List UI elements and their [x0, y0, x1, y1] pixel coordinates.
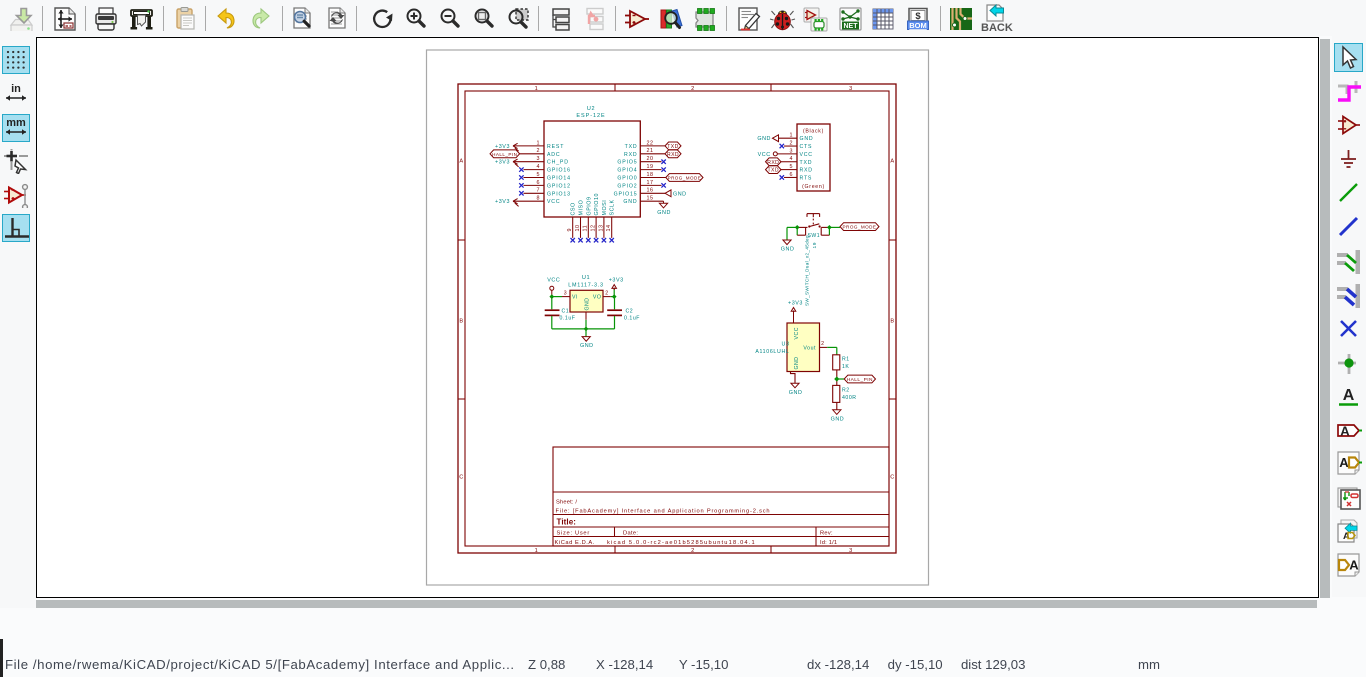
svg-text:GND: GND: [789, 390, 803, 396]
svg-text:R1: R1: [842, 357, 850, 363]
svg-text:CH_PD: CH_PD: [547, 160, 569, 166]
svg-text:Sheet: /: Sheet: /: [556, 500, 577, 506]
svg-text:1K: 1K: [842, 364, 849, 370]
svg-text:A: A: [1340, 423, 1350, 438]
svg-text:kicad 5.0.0-rc2-ae01b5285ubunt: kicad 5.0.0-rc2-ae01b5285ubuntu18.04.1: [607, 540, 756, 546]
svg-text:+3V3: +3V3: [609, 278, 624, 284]
svg-text:0.1uF: 0.1uF: [560, 316, 576, 322]
svg-text:A: A: [1349, 558, 1359, 573]
svg-text:Title:: Title:: [557, 518, 577, 527]
svg-text:SW_SWITCH_Dual_x2_45deg: SW_SWITCH_Dual_x2_45deg: [805, 235, 810, 306]
svg-text:SCLK: SCLK: [610, 199, 616, 215]
svg-text:RXD: RXD: [800, 168, 813, 174]
svg-text:GND: GND: [657, 210, 671, 216]
svg-text:+3V3: +3V3: [788, 301, 803, 307]
svg-text:GPIO10: GPIO10: [594, 193, 600, 215]
svg-text:C1: C1: [562, 309, 570, 315]
svg-text:PROG_MODE: PROG_MODE: [668, 176, 702, 181]
svg-text:in: in: [11, 83, 21, 95]
svg-text:A: A: [890, 159, 894, 165]
svg-text:GND: GND: [623, 199, 637, 205]
svg-text:Date:: Date:: [623, 531, 638, 537]
svg-text:14: 14: [606, 225, 612, 232]
svg-text:GND: GND: [781, 247, 795, 253]
svg-text:RXD: RXD: [667, 152, 679, 158]
svg-text:ESP-12E: ESP-12E: [576, 113, 605, 119]
svg-text:GPIO15: GPIO15: [614, 191, 638, 197]
svg-text:GPIO16: GPIO16: [547, 168, 571, 174]
svg-text:GPIO4: GPIO4: [617, 168, 637, 174]
svg-text:CSO: CSO: [571, 202, 577, 215]
svg-text:Size: User: Size: User: [557, 531, 590, 537]
svg-text:GPIO13: GPIO13: [547, 191, 571, 197]
svg-text:TXD: TXD: [767, 168, 779, 174]
svg-text:+3V3: +3V3: [495, 160, 510, 166]
svg-text:VCC: VCC: [800, 152, 813, 158]
svg-text:A1106LUHL: A1106LUHL: [755, 349, 789, 355]
svg-text:GND: GND: [794, 356, 800, 369]
svg-text:12: 12: [591, 225, 597, 232]
svg-text:VI: VI: [572, 295, 578, 301]
svg-text:B: B: [890, 319, 894, 325]
svg-text:GPIO0: GPIO0: [617, 176, 637, 182]
svg-text:GPIO9: GPIO9: [586, 197, 592, 216]
svg-text:GPIO2: GPIO2: [617, 183, 637, 189]
svg-text:HALL_PIN: HALL_PIN: [492, 152, 517, 157]
svg-text:B: B: [459, 319, 463, 325]
svg-text:GND: GND: [800, 136, 814, 142]
svg-text:RXD: RXD: [767, 160, 779, 166]
svg-text:mm: mm: [6, 117, 26, 129]
svg-text:Id: 1/1: Id: 1/1: [820, 540, 837, 546]
svg-text:MOSI: MOSI: [602, 200, 608, 216]
svg-text:VCC: VCC: [758, 152, 771, 158]
svg-text:KiCad E.D.A.: KiCad E.D.A.: [555, 540, 595, 546]
svg-text:13: 13: [598, 225, 604, 232]
svg-text:BOM: BOM: [909, 21, 927, 30]
svg-text:1: 1: [535, 86, 539, 92]
svg-text:Rev:: Rev:: [820, 531, 833, 537]
svg-text:+3V3: +3V3: [495, 144, 510, 150]
svg-text:GND: GND: [580, 343, 594, 349]
svg-text:C: C: [459, 475, 464, 481]
svg-text:3: 3: [564, 291, 567, 297]
svg-text:VCC: VCC: [547, 199, 561, 205]
svg-text:GND: GND: [585, 297, 591, 310]
svg-text:RTS: RTS: [800, 175, 813, 181]
svg-text:Vout: Vout: [803, 345, 816, 351]
svg-text:VCC: VCC: [547, 278, 560, 284]
svg-text:2: 2: [691, 86, 695, 92]
svg-text:VCC: VCC: [794, 327, 800, 339]
svg-text:TXD: TXD: [667, 144, 679, 150]
svg-text:11: 11: [583, 225, 589, 232]
svg-text:3: 3: [849, 548, 853, 554]
svg-text:GPIO5: GPIO5: [617, 160, 637, 166]
svg-text:PROG_MODE: PROG_MODE: [843, 225, 877, 230]
svg-text:U3: U3: [782, 341, 790, 347]
svg-text:TXD: TXD: [625, 144, 638, 150]
svg-text:File: [FabAcademy] Interface a: File: [FabAcademy] Interface and Applica…: [556, 509, 771, 515]
svg-text:VO: VO: [593, 295, 602, 301]
svg-text:A: A: [459, 159, 463, 165]
svg-text:2: 2: [821, 341, 824, 347]
svg-text:A: A: [1339, 455, 1349, 470]
svg-text:400R: 400R: [842, 395, 857, 401]
svg-text:A: A: [1343, 387, 1355, 404]
svg-text:GPIO14: GPIO14: [547, 176, 571, 182]
svg-text:GPIO12: GPIO12: [547, 183, 571, 189]
svg-text:NET: NET: [843, 23, 858, 30]
svg-text:GND: GND: [673, 191, 687, 197]
svg-text:MISO: MISO: [579, 200, 585, 216]
svg-text:TXD: TXD: [800, 160, 813, 166]
svg-text:9: 9: [567, 228, 573, 232]
svg-text:1: 1: [535, 548, 539, 554]
svg-text:RXD: RXD: [624, 152, 638, 158]
svg-text:(Green): (Green): [802, 184, 825, 190]
svg-text:C: C: [890, 475, 895, 481]
svg-text:LM1117-3.3: LM1117-3.3: [568, 283, 603, 289]
svg-text:GND: GND: [757, 136, 771, 142]
svg-text:19: 19: [812, 242, 818, 248]
svg-text:ADC: ADC: [547, 152, 561, 158]
svg-text:C2: C2: [626, 309, 634, 315]
svg-text:10: 10: [575, 225, 581, 232]
svg-text:HALL_PIN: HALL_PIN: [847, 377, 873, 383]
svg-text:(Black): (Black): [803, 129, 824, 135]
svg-text:3: 3: [849, 86, 853, 92]
svg-text:R2: R2: [842, 388, 850, 394]
svg-text:2: 2: [691, 548, 695, 554]
svg-text:0.1uF: 0.1uF: [624, 316, 640, 322]
svg-text:CTS: CTS: [800, 144, 813, 150]
svg-text:U2: U2: [587, 106, 595, 112]
svg-text:+3V3: +3V3: [495, 199, 510, 205]
svg-text:REST: REST: [547, 144, 564, 150]
svg-text:2: 2: [605, 291, 608, 297]
svg-text:U1: U1: [582, 275, 590, 281]
svg-text:GND: GND: [831, 416, 845, 422]
